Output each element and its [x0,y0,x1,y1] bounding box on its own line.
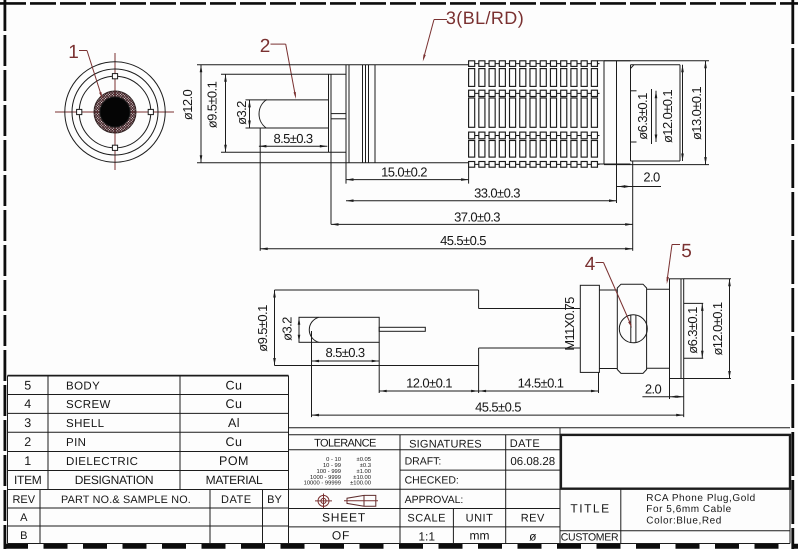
svg-text:Cu: Cu [226,397,243,411]
tolerance values small text [304,456,371,486]
front view center lines [55,53,174,170]
svg-text:3: 3 [24,416,31,430]
svg-text:A: A [20,512,28,524]
page border right [791,0,794,549]
svg-text:ø9.5±0.1: ø9.5±0.1 [205,81,220,128]
svg-text:RCA Phone Plug,Gold: RCA Phone Plug,Gold [646,493,755,504]
svg-text:CUSTOMER: CUSTOMER [561,532,619,544]
svg-text:BODY: BODY [66,380,100,392]
dimension dia 9.5 view1 [205,74,329,152]
side view 1 shell ring grooves [363,65,376,163]
title block top line [289,427,791,429]
svg-text:PIN: PIN [66,437,86,449]
dimension 12.0 view2 [379,342,478,393]
svg-text:CHECKED:: CHECKED: [405,475,459,487]
svg-text:ø6.3±0.1: ø6.3±0.1 [635,93,650,140]
side view 2 pin tail [379,327,425,331]
side view 2 neck [479,309,581,349]
side view 1 rear collar bands [598,61,631,164]
dimension dia 9.5 view2 [255,290,276,366]
tolerance header text [314,437,376,449]
dimension dia 6.3 view1 [631,89,658,144]
side view 1 shell front face [346,65,469,163]
page border bottom [4,544,798,549]
svg-text:37.0±0.3: 37.0±0.3 [454,210,500,225]
svg-text:ø12.0±0.1: ø12.0±0.1 [660,90,675,143]
svg-text:2: 2 [24,435,31,449]
sheet of text [322,511,366,543]
dimension 2.0 view1 [617,170,662,188]
svg-text:ø6.3±0.1: ø6.3±0.1 [685,307,700,354]
svg-text:06.08.28: 06.08.28 [510,456,555,468]
svg-text:ø12.0: ø12.0 [180,90,195,121]
svg-text:TOLERANCE: TOLERANCE [314,437,376,449]
tolerance block grid [289,428,561,544]
dimension 2.0 view2 [642,379,683,400]
svg-text:Cu: Cu [226,378,243,392]
svg-text:Color:Blue,Red: Color:Blue,Red [646,516,722,527]
svg-text:TITLE: TITLE [570,502,610,516]
title block box [561,435,790,489]
svg-text:4: 4 [24,397,31,411]
page border top [0,2,798,5]
parts table rows text [12,378,282,542]
dimension 15.0 view1 [346,163,469,184]
dimension 14.5 view2 [479,372,599,393]
side view 2 screw head [617,284,646,373]
side view 1 knurl [469,61,600,167]
svg-text:mm: mm [470,529,490,543]
svg-text:3(BL/RD): 3(BL/RD) [446,8,524,28]
svg-text:ø9.5±0.1: ø9.5±0.1 [255,305,270,352]
svg-text:APPROVAL:: APPROVAL: [405,494,464,506]
svg-text:REV: REV [12,494,35,506]
front view center pin (filled) [100,97,130,127]
svg-text:Al: Al [228,416,240,430]
side view 2 pin hole [299,317,379,342]
svg-text:REV: REV [521,513,545,525]
dimension 37.0 view1 [331,152,633,251]
front view outer circle [65,62,165,162]
side view 2 rear flange [670,279,684,379]
svg-text:1:1: 1:1 [418,529,435,543]
svg-text:SCALE: SCALE [407,513,446,525]
svg-text:M11X0.75: M11X0.75 [562,297,577,351]
svg-text:DRAFT:: DRAFT: [405,455,442,467]
balloon label 1 [68,42,102,99]
svg-text:ø3.2: ø3.2 [234,101,249,125]
svg-text:±100.00: ±100.00 [350,480,371,487]
front view inner circle [79,76,151,148]
svg-text:POM: POM [219,454,249,468]
svg-text:DESIGNATION: DESIGNATION [75,473,154,487]
svg-text:ø13.0±0.1: ø13.0±0.1 [689,87,704,140]
dimension dia 6.3 view2 [684,303,704,358]
svg-text:5: 5 [24,378,31,392]
svg-text:UNIT: UNIT [466,513,494,525]
dimension dia 3.2 view2 [280,317,301,342]
datum target symbol [315,494,332,509]
svg-text:ITEM: ITEM [14,473,42,487]
svg-text:ø12.0±0.1: ø12.0±0.1 [710,302,725,355]
dimension dia 12.0 view2 [684,279,731,379]
front view middle circle [72,69,158,155]
signatures block text [405,438,556,544]
svg-text:15.0±0.2: 15.0±0.2 [381,165,427,180]
svg-text:DIELECTRIC: DIELECTRIC [66,456,138,468]
dimension 33.0 view1 [346,164,617,203]
svg-text:10000 - 99999: 10000 - 99999 [304,480,341,487]
side view 2 dielectric body [275,290,479,366]
dimension 45.5 view1 [260,128,633,251]
svg-text:DATE: DATE [510,438,541,450]
svg-text:OF: OF [332,529,350,543]
dimension dia 3.2 view1 [234,100,267,128]
svg-text:2: 2 [260,36,271,57]
svg-text:For 5,6mm Cable: For 5,6mm Cable [646,504,732,515]
svg-text:1: 1 [68,42,79,63]
svg-text:SHEET: SHEET [322,511,366,525]
front view insulator hatch ring [55,90,175,134]
side view 1 pin [259,100,328,128]
customer text [561,532,619,544]
svg-text:ø: ø [529,529,537,543]
side view 2 rear mid band [647,289,670,368]
side view 1 dielectric body front face [329,74,347,152]
svg-text:12.0±0.1: 12.0±0.1 [406,376,452,391]
dimension 8.5 view1 [259,131,327,148]
svg-text:SIGNATURES: SIGNATURES [409,438,482,450]
svg-text:1: 1 [24,454,31,468]
side view 2 screw slot circle [619,315,647,343]
dimension dia 12.0 view1 [180,65,346,163]
svg-text:33.0±0.3: 33.0±0.3 [474,186,520,201]
dimension 45.5 view2 [312,379,684,418]
svg-text:SCREW: SCREW [66,399,111,411]
svg-text:BY: BY [267,494,282,506]
dimension dia 12.0 rear view1 [660,65,684,161]
label M11X0.75 [562,297,577,351]
balloon label 4 [585,254,632,328]
dimension dia 13.0 view1 [604,61,709,165]
svg-text:8.5±0.3: 8.5±0.3 [273,131,312,146]
balloon label 2 [260,36,296,99]
dimension 8.5 view2 [312,331,380,417]
svg-text:8.5±0.3: 8.5±0.3 [325,345,364,360]
svg-text:45.5±0.5: 45.5±0.5 [440,233,486,248]
parts table grid [8,376,289,544]
svg-text:45.5±0.5: 45.5±0.5 [475,400,521,415]
balloon label 5 [667,241,692,284]
title text [570,493,755,527]
side view 1 rear cap [631,65,681,161]
svg-text:5: 5 [681,241,692,262]
page border left [4,0,7,549]
svg-text:Cu: Cu [226,435,243,449]
svg-text:2.0: 2.0 [643,170,660,185]
svg-text:B: B [20,530,27,542]
svg-text:2.0: 2.0 [645,382,662,397]
svg-text:DATE: DATE [221,494,252,506]
balloon label 3 (BL/RD) [423,8,524,62]
svg-text:14.5±0.1: 14.5±0.1 [518,376,564,391]
svg-text:MATERIAL: MATERIAL [206,473,263,487]
front view slot squares [77,74,154,151]
svg-text:ø3.2: ø3.2 [280,317,295,341]
side view 2 threaded collar M11 [580,285,617,372]
title block grid [8,489,791,544]
svg-text:PART NO.& SAMPLE NO.: PART NO.& SAMPLE NO. [61,494,191,506]
projection cone symbol [344,495,378,506]
svg-text:4: 4 [585,254,596,275]
svg-text:SHELL: SHELL [66,418,105,430]
